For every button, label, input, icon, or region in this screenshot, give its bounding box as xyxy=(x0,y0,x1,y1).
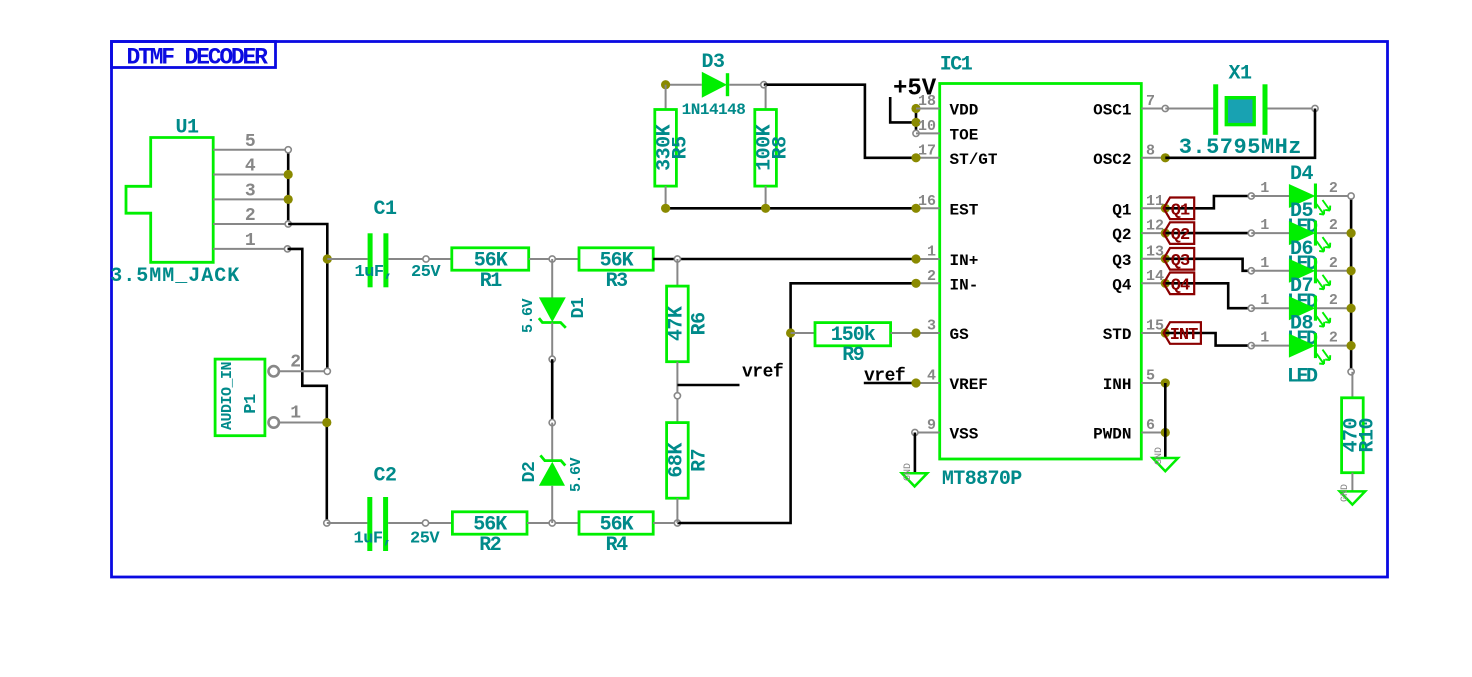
wire R5 bottom stub xyxy=(665,186,667,208)
wire OSC1 to crystal xyxy=(1165,108,1213,110)
LED D6 anode stub xyxy=(1251,270,1289,272)
junction pin2 xyxy=(911,279,920,288)
wire LED cathode bus xyxy=(1350,196,1353,372)
svg-text:1: 1 xyxy=(290,404,301,424)
resistor R5 body xyxy=(655,110,677,187)
LED D6 pin1 node xyxy=(1248,268,1254,274)
svg-text:GS: GS xyxy=(950,326,970,344)
junction pin4 xyxy=(911,378,920,387)
LED D8 anode stub xyxy=(1251,345,1289,347)
node D2 cathode xyxy=(549,420,555,426)
svg-text:5.6V: 5.6V xyxy=(520,299,537,334)
svg-text:1: 1 xyxy=(1260,292,1269,309)
node P1 pin2 end xyxy=(324,368,330,374)
svg-text:1: 1 xyxy=(1260,330,1269,347)
svg-text:2: 2 xyxy=(245,206,256,226)
IC1 pin 16 EST stub xyxy=(916,207,940,209)
IC1 pin 5 INH stub xyxy=(1141,382,1165,384)
junction P1 pin1 xyxy=(322,418,331,427)
IC1 pin 15 STD stub xyxy=(1141,332,1165,334)
U1 pin 2 stub xyxy=(213,223,288,225)
svg-text:2: 2 xyxy=(290,352,301,372)
junction LED bus xyxy=(1347,304,1356,313)
svg-text:2: 2 xyxy=(1329,180,1338,197)
resistor R1 body xyxy=(452,248,529,270)
svg-text:1: 1 xyxy=(1260,217,1269,234)
junction IC right pin xyxy=(1161,254,1170,263)
svg-text:Q3: Q3 xyxy=(1171,252,1190,271)
node C2 corner xyxy=(324,520,330,526)
svg-text:VDD: VDD xyxy=(950,102,979,120)
svg-text:R2: R2 xyxy=(479,534,501,557)
svg-text:D6: D6 xyxy=(1290,238,1313,261)
junction IC right pin xyxy=(1161,378,1170,387)
global label Q1 xyxy=(1164,198,1195,220)
svg-text:STD: STD xyxy=(1103,326,1132,344)
wire Q4 to LED xyxy=(1165,283,1251,308)
LED D6 light arrows xyxy=(1317,275,1331,290)
junction C1 tap xyxy=(323,254,332,263)
IC1 pin 11 Q1 stub xyxy=(1141,207,1165,209)
wire R4 node to IC pin2 IN- xyxy=(677,283,916,523)
svg-text:25V: 25V xyxy=(410,529,440,548)
IC1 pin 3 GS stub xyxy=(916,332,940,334)
capacitor C2 plates xyxy=(367,497,372,551)
IC1 pin 1 IN+ stub xyxy=(916,258,940,260)
wire INH PWDN to ground xyxy=(1164,383,1167,458)
LED D4 light arrows xyxy=(1317,200,1331,215)
svg-text:X1: X1 xyxy=(1228,62,1252,85)
junction LED bus xyxy=(1347,229,1356,238)
svg-text:25V: 25V xyxy=(411,263,441,282)
node U1 pin5 end xyxy=(285,147,291,153)
svg-text:2: 2 xyxy=(1329,255,1338,272)
wire C1 right stub xyxy=(388,258,451,260)
junction R5 top xyxy=(661,80,670,89)
wire R5 top stub xyxy=(665,85,667,110)
svg-text:D2: D2 xyxy=(520,462,540,483)
LED D4 cathode stub xyxy=(1317,195,1351,197)
node C2-R2 xyxy=(422,520,428,526)
svg-text:R8: R8 xyxy=(770,136,793,159)
svg-text:R5: R5 xyxy=(670,136,693,159)
LED D7 cathode stub xyxy=(1317,307,1351,309)
svg-text:Q3: Q3 xyxy=(1112,252,1131,270)
global label INT xyxy=(1164,322,1201,344)
wire R2-R4 xyxy=(527,522,579,524)
svg-text:16: 16 xyxy=(918,193,936,210)
svg-text:3.5MM_JACK: 3.5MM_JACK xyxy=(110,265,240,288)
LED D8 body xyxy=(1289,334,1316,358)
IC1 pin 4 VREF stub xyxy=(916,382,940,384)
svg-text:TOE: TOE xyxy=(950,126,979,144)
svg-text:47K: 47K xyxy=(665,306,688,341)
svg-text:4: 4 xyxy=(245,157,256,177)
svg-text:PWDN: PWDN xyxy=(1093,426,1131,444)
LED D7 light arrows xyxy=(1317,312,1331,327)
svg-text:1uF,: 1uF, xyxy=(354,529,393,548)
capacitor C1 plates xyxy=(368,233,373,287)
IC1 pin 17 ST/GT stub xyxy=(916,157,940,159)
LED D8 cathode stub xyxy=(1317,345,1351,347)
svg-text:7: 7 xyxy=(1146,93,1155,110)
wire Q2 to LED xyxy=(1165,232,1251,235)
node bus top xyxy=(1348,193,1354,199)
svg-text:3: 3 xyxy=(245,181,256,201)
wire D1 top stub xyxy=(551,259,553,298)
node U1 pin2 end xyxy=(285,221,291,227)
junction pin17 xyxy=(911,153,920,162)
node R1-D1-R3 xyxy=(549,256,555,262)
wire R8 bottom stub xyxy=(765,186,767,208)
wire D1 bottom stub xyxy=(551,323,553,360)
wire crystal to OSC2 xyxy=(1165,109,1315,158)
wire INT to LED xyxy=(1165,333,1251,346)
svg-text:8: 8 xyxy=(1146,142,1155,159)
wire D3 anode stub xyxy=(666,84,702,86)
crystal X1 xyxy=(1213,84,1218,135)
node D3-R8 xyxy=(761,82,767,88)
wire Q3 to LED xyxy=(1165,259,1251,271)
junction U1 pin4 xyxy=(284,170,293,179)
svg-text:OSC2: OSC2 xyxy=(1093,151,1131,169)
junction VDD pin18 xyxy=(911,104,920,113)
wire U1 pin5 to pin2 vertical xyxy=(287,150,290,224)
svg-text:MT8870P: MT8870P xyxy=(942,468,1022,491)
wire EST net xyxy=(666,207,916,210)
wire D1 to D2 xyxy=(551,359,554,422)
LED D8 light arrows xyxy=(1317,350,1331,365)
LED D4 body xyxy=(1289,184,1316,208)
wire R8 top stub xyxy=(765,85,767,110)
svg-text:D8: D8 xyxy=(1290,313,1313,336)
junction IC right pin xyxy=(1161,229,1170,238)
svg-text:D5: D5 xyxy=(1290,200,1313,223)
junction IC right pin xyxy=(1161,204,1170,213)
svg-text:3: 3 xyxy=(927,318,936,335)
wire R7 bottom stub xyxy=(676,498,678,523)
svg-text:vref: vref xyxy=(864,367,905,387)
LED D6 cathode stub xyxy=(1317,270,1351,272)
wire C2 right stub xyxy=(388,522,452,524)
ground at R10 xyxy=(1340,491,1365,504)
LED D5 pin1 node xyxy=(1248,230,1254,236)
IC1 pin 6 PWDN stub xyxy=(1141,432,1165,434)
junction LED bus xyxy=(1347,341,1356,350)
node R7 top xyxy=(674,393,680,399)
node D1 cathode xyxy=(549,356,555,362)
global label Q4 xyxy=(1164,273,1195,295)
sheet border xyxy=(112,42,1388,578)
svg-text:GND: GND xyxy=(1340,484,1351,502)
IC U1 MT8870P body xyxy=(940,84,1142,460)
diode D2 zener xyxy=(540,455,565,465)
svg-text:Q4: Q4 xyxy=(1171,276,1190,295)
svg-text:R1: R1 xyxy=(480,270,503,293)
svg-text:Q1: Q1 xyxy=(1112,201,1131,219)
svg-text:17: 17 xyxy=(918,142,936,159)
resistor R8 body xyxy=(755,110,777,187)
node R4-R7 xyxy=(674,520,680,526)
node C1-R1 xyxy=(423,256,429,262)
svg-text:P1: P1 xyxy=(242,394,261,414)
junction +5V tap xyxy=(911,118,920,127)
svg-text:1: 1 xyxy=(927,244,936,261)
svg-text:68K: 68K xyxy=(665,443,688,478)
ground at PWDN xyxy=(1153,458,1178,471)
wire R1-R3 xyxy=(529,258,579,260)
U1 pin 4 stub xyxy=(213,174,288,176)
svg-text:ST/GT: ST/GT xyxy=(950,151,998,169)
svg-text:D1: D1 xyxy=(569,297,589,318)
LED D7 body xyxy=(1289,296,1316,320)
LED D6 body xyxy=(1289,259,1316,283)
IC1 pin 2 IN- stub xyxy=(916,282,940,284)
P1 pin 1 circle xyxy=(269,417,279,427)
IC1 pin 9 VSS stub xyxy=(916,432,940,434)
IC1 pin 7 OSC1 stub xyxy=(1141,108,1165,110)
resistor R2 body xyxy=(452,512,527,534)
resistor R7 body xyxy=(667,423,689,499)
svg-text:5: 5 xyxy=(245,132,256,152)
wire R9 left stub xyxy=(791,332,815,334)
wire VDD-TOE vertical xyxy=(915,109,918,134)
svg-text:1N14148: 1N14148 xyxy=(682,101,746,119)
LED D5 anode stub xyxy=(1251,232,1289,234)
svg-text:2: 2 xyxy=(927,268,936,285)
svg-text:Q2: Q2 xyxy=(1171,226,1190,245)
svg-text:VREF: VREF xyxy=(950,376,988,394)
P1 pin 2 stub xyxy=(279,370,327,372)
LED D4 pin1 node xyxy=(1248,193,1254,199)
svg-text:4: 4 xyxy=(927,368,936,385)
wire Q1 to LED xyxy=(1165,196,1251,208)
junction IC right pin xyxy=(1161,428,1170,437)
IC1 pin 14 Q4 stub xyxy=(1141,282,1165,284)
node pin7 end xyxy=(1162,105,1168,111)
svg-text:5: 5 xyxy=(1146,368,1155,385)
svg-text:R6: R6 xyxy=(688,312,711,335)
wire R4 to R7 node xyxy=(653,522,677,524)
junction R8-EST xyxy=(761,204,770,213)
svg-text:C1: C1 xyxy=(373,198,397,221)
svg-text:2: 2 xyxy=(1329,330,1338,347)
svg-text:IN-: IN- xyxy=(950,276,979,294)
svg-text:R7: R7 xyxy=(688,449,711,472)
LED D5 cathode stub xyxy=(1317,232,1351,234)
wire D2 bottom stub xyxy=(551,486,553,523)
svg-text:10: 10 xyxy=(918,118,936,135)
node R2-D2-R4 xyxy=(549,520,555,526)
svg-text:R3: R3 xyxy=(606,270,628,293)
wire U1 pin2 to P1 pin2 xyxy=(288,224,327,371)
svg-text:Q1: Q1 xyxy=(1171,201,1190,220)
svg-text:LED: LED xyxy=(1287,366,1318,389)
wire D2 top stub xyxy=(551,423,553,461)
title box xyxy=(112,42,276,68)
global label Q3 xyxy=(1164,248,1195,270)
wire D3 node to ST/GT pin17 xyxy=(764,85,916,158)
diode D3 xyxy=(702,72,727,98)
IC1 pin 10 TOE stub xyxy=(916,132,940,134)
IC1 pin 18 VDD stub xyxy=(916,108,940,110)
U1 pin 1 stub xyxy=(213,248,288,250)
junction pin16 xyxy=(911,204,920,213)
svg-text:AUDIO_IN: AUDIO_IN xyxy=(219,361,236,430)
U1 pin 5 stub xyxy=(213,149,288,151)
IC1 pin 12 Q2 stub xyxy=(1141,232,1165,234)
IC1 pin 8 OSC2 stub xyxy=(1141,157,1165,159)
junction pin3 xyxy=(911,328,920,337)
junction IC right pin xyxy=(1161,328,1170,337)
svg-text:D4: D4 xyxy=(1290,163,1314,186)
svg-text:2: 2 xyxy=(1329,292,1338,309)
svg-text:1uF,: 1uF, xyxy=(355,263,394,282)
U1 pin 3 stub xyxy=(213,198,288,200)
node bus bottom xyxy=(1348,369,1354,375)
svg-text:D7: D7 xyxy=(1290,275,1313,298)
svg-text:1: 1 xyxy=(245,231,256,251)
wire D3 cathode stub xyxy=(729,84,764,86)
svg-text:IN+: IN+ xyxy=(950,252,979,270)
svg-text:9: 9 xyxy=(927,417,936,434)
wire C1 left stub xyxy=(327,258,367,260)
svg-text:5.6V: 5.6V xyxy=(568,458,585,493)
wire vref left xyxy=(677,384,739,387)
resistor R4 body xyxy=(579,512,653,534)
P1 pin 2 circle xyxy=(269,366,279,376)
node crystal corner xyxy=(1312,105,1318,111)
LED D7 anode stub xyxy=(1251,307,1289,309)
resistor R10 body xyxy=(1342,398,1364,473)
resistor R6 body xyxy=(667,286,689,362)
svg-text:INT: INT xyxy=(1170,326,1198,345)
LED D8 pin1 node xyxy=(1248,343,1254,349)
node U1 pin1 end xyxy=(284,246,290,252)
svg-text:R10: R10 xyxy=(1356,418,1379,453)
svg-text:6: 6 xyxy=(1146,417,1155,434)
svg-text:R9: R9 xyxy=(842,344,864,367)
ground at VSS xyxy=(902,473,927,486)
svg-text:VSS: VSS xyxy=(950,426,979,444)
svg-text:1: 1 xyxy=(1260,180,1269,197)
svg-text:3.5795MHz: 3.5795MHz xyxy=(1179,135,1302,160)
junction IC right pin xyxy=(1161,153,1170,162)
resistor R3 body xyxy=(579,248,653,270)
wire R6-R7 link xyxy=(676,362,678,423)
LED D7 pin1 node xyxy=(1248,305,1254,311)
svg-text:Q2: Q2 xyxy=(1112,226,1131,244)
connector P1 AUDIO_IN body xyxy=(215,359,265,436)
junction R5-EST xyxy=(661,204,670,213)
wire R6 top stub xyxy=(676,259,678,286)
resistor R9 body xyxy=(815,323,891,346)
svg-text:18: 18 xyxy=(918,93,936,110)
svg-text:2: 2 xyxy=(1329,217,1338,234)
junction R9 left xyxy=(786,328,795,337)
node R6 top tap xyxy=(674,256,680,262)
svg-text:OSC1: OSC1 xyxy=(1093,102,1131,120)
global label Q2 xyxy=(1164,222,1195,244)
wire vref right to VREF pin xyxy=(864,382,916,385)
svg-text:EST: EST xyxy=(950,201,979,219)
LED D5 body xyxy=(1289,221,1316,245)
LED D5 light arrows xyxy=(1317,237,1331,252)
svg-text:D3: D3 xyxy=(701,51,724,74)
svg-text:GND: GND xyxy=(903,463,914,481)
wire R10 to ground xyxy=(1351,473,1353,492)
junction pin1 xyxy=(911,254,920,263)
wire bus to R10 xyxy=(1351,372,1353,398)
IC1 pin 13 Q3 stub xyxy=(1141,258,1165,260)
svg-text:Q4: Q4 xyxy=(1112,276,1132,294)
diode D1 zener xyxy=(539,297,566,322)
svg-text:vref: vref xyxy=(742,362,783,382)
svg-text:DTMF DECODER: DTMF DECODER xyxy=(127,45,269,71)
svg-text:R4: R4 xyxy=(606,534,629,557)
LED D4 anode stub xyxy=(1251,195,1289,197)
wire crystal right xyxy=(1268,108,1316,110)
svg-text:U1: U1 xyxy=(175,117,199,140)
connector U1 3.5MM_JACK body xyxy=(126,138,213,263)
wire R9 right stub to GS xyxy=(891,332,916,334)
svg-text:INH: INH xyxy=(1103,376,1132,394)
svg-text:C2: C2 xyxy=(373,465,396,488)
junction U1 pin3 xyxy=(284,195,293,204)
svg-text:1: 1 xyxy=(1260,255,1269,272)
svg-text:GND: GND xyxy=(1154,447,1165,465)
wire R3 to IC pin1 IN+ xyxy=(653,258,916,261)
node TOE pin10 end xyxy=(913,130,919,136)
junction IC right pin xyxy=(1161,279,1170,288)
wire VSS to ground xyxy=(914,433,917,474)
junction LED bus xyxy=(1347,266,1356,275)
node pin9 end xyxy=(912,429,918,435)
P1 pin 1 stub xyxy=(279,422,327,424)
svg-text:IC1: IC1 xyxy=(940,54,973,77)
wire U1 pin1 to P1 pin1 and C2 xyxy=(288,249,327,523)
wire C2 left stub xyxy=(327,522,368,524)
wire +5V down xyxy=(890,97,916,122)
